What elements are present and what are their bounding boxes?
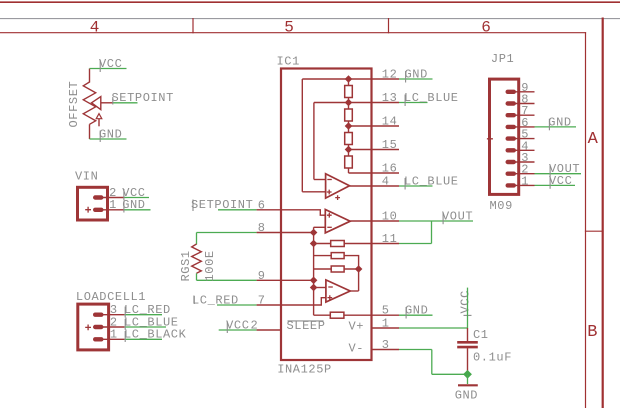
op-amp A plus mark <box>327 190 332 195</box>
svg-text:15: 15 <box>382 138 398 152</box>
VIN pin2 contact <box>93 195 104 199</box>
svg-text:0.1uF: 0.1uF <box>473 350 512 364</box>
capacitor C1 <box>457 328 512 371</box>
internal opampC minus lead <box>314 287 326 289</box>
internal vertical bus <box>313 227 315 315</box>
frame outer right line <box>602 19 604 408</box>
GND stub <box>467 374 469 384</box>
svg-text:14: 14 <box>382 115 398 129</box>
JP1 pin4 contact <box>506 148 517 152</box>
frame top outer line <box>0 1 620 3</box>
potentiometer OFFSET <box>83 69 112 140</box>
label tick VCC (JP1) <box>549 177 551 189</box>
JP1 pin9 contact <box>506 90 517 94</box>
label tick LC_BLUE (pin4) <box>404 178 406 190</box>
net label LC_RED (IC pin7) <box>192 293 257 307</box>
internal pin9 route <box>280 279 314 281</box>
svg-text:7: 7 <box>258 294 266 308</box>
op-amp A outside plus mark <box>335 195 340 200</box>
JP1 box <box>490 79 519 194</box>
svg-text:GND: GND <box>122 198 145 212</box>
wire down to RGS1 top <box>196 233 198 245</box>
frame inner right line <box>585 33 587 408</box>
pin 9 stub <box>257 279 280 281</box>
pin 11 stub <box>373 243 400 245</box>
pin 15 stub <box>373 149 400 151</box>
resistor box feedback B <box>331 253 344 259</box>
GND bar <box>458 384 478 386</box>
wire pin8 horizontal <box>197 232 257 234</box>
svg-text:SETPOINT: SETPOINT <box>112 91 174 105</box>
pin 2 stub <box>257 329 280 331</box>
chain junction pin12 <box>345 75 353 83</box>
frame inner top line <box>0 32 586 34</box>
pin 10 stub <box>373 220 400 222</box>
wire VCC down <box>467 288 469 328</box>
op-amp C plus mark <box>327 295 332 300</box>
pin 7 stub <box>257 304 280 306</box>
op-amp B output line <box>350 220 372 222</box>
pin 12 stub <box>373 78 400 80</box>
label tick VCC <box>226 322 228 334</box>
chain junction pin15 <box>345 146 353 154</box>
net wire VOUT (JP1 pin2) <box>535 173 582 175</box>
net wire LC_BLUE (loadcell) <box>124 326 166 328</box>
LOADCELL1 polarity plus <box>85 325 91 331</box>
chain resistor box 4 <box>345 156 353 168</box>
svg-text:A: A <box>588 130 599 149</box>
internal rectC row <box>314 268 359 270</box>
svg-text:GND: GND <box>455 388 478 402</box>
connector VIN <box>75 170 151 221</box>
JP1 pin7 contact <box>506 113 517 117</box>
op-amp C triangle <box>326 280 350 302</box>
svg-text:16: 16 <box>382 162 398 176</box>
net label VCC (IC pin2) <box>219 318 257 333</box>
net label SETPOINT (IC pin6) <box>191 198 257 212</box>
pin 5 stub <box>373 314 400 316</box>
junction feedback C <box>355 265 363 273</box>
label tick GND (pin5) <box>405 307 407 319</box>
svg-text:M09: M09 <box>490 199 513 213</box>
svg-text:INA125P: INA125P <box>277 362 332 376</box>
svg-text:VIN: VIN <box>75 170 98 184</box>
svg-text:GND: GND <box>405 304 428 318</box>
label tick VCC column <box>464 314 472 316</box>
internal resistor chain vertical <box>348 79 350 173</box>
net wire GND (pin5) <box>399 314 433 316</box>
LOADCELL1 pin3 contact <box>93 313 104 317</box>
svg-text:GND: GND <box>548 115 571 129</box>
internal row pin15 <box>349 149 373 151</box>
internal row pin16 <box>349 172 373 174</box>
SLEEP overline <box>288 320 324 322</box>
net wire SETPOINT (pot) <box>113 102 138 104</box>
JP1 polarity cross <box>487 136 493 142</box>
VIN pin2 stub <box>100 197 124 199</box>
svg-text:VCC: VCC <box>458 290 472 313</box>
label tick SETPOINT <box>192 200 194 212</box>
resistor zigzag OFFSET <box>83 82 95 124</box>
svg-text:B: B <box>587 323 597 342</box>
svg-text:5: 5 <box>284 18 294 36</box>
pot wiper arrow <box>92 97 101 110</box>
VIN pin1 contact <box>93 208 104 212</box>
JP1 pin4 stub <box>512 149 535 151</box>
chain junction pin14 <box>345 122 353 130</box>
junction pin11 bus <box>310 240 318 248</box>
svg-text:V-: V- <box>349 342 365 356</box>
svg-text:GND: GND <box>99 127 122 141</box>
net wire GND (VIN) <box>124 209 150 211</box>
internal opampA plus lead <box>302 191 325 193</box>
net wire pin3 right <box>399 349 432 351</box>
VIN pin1 stub <box>100 209 124 211</box>
svg-text:4: 4 <box>382 175 390 189</box>
VIN box <box>78 187 108 220</box>
op-amp C output line <box>350 290 358 292</box>
wire pin3 to junction <box>432 373 468 375</box>
resistor box pin11 <box>331 241 345 247</box>
wire RGS1 bottom down <box>196 273 198 280</box>
op-amp C minus mark <box>328 286 333 288</box>
pin 4 stub <box>373 185 400 187</box>
svg-text:1: 1 <box>109 198 117 212</box>
label tick LC_BLUE (pin13) <box>404 95 406 107</box>
svg-text:LC_RED: LC_RED <box>192 293 239 307</box>
C1 top plate <box>457 341 478 344</box>
JP1 pin1 stub <box>512 184 535 186</box>
svg-text:LC_BLACK: LC_BLACK <box>124 328 187 342</box>
C1 bottom stub <box>467 348 469 371</box>
chain resistor box 1 <box>345 86 353 98</box>
JP1 pin2 contact <box>506 172 517 176</box>
op-amp A output line <box>350 185 373 187</box>
label tick VOUT (pin10) <box>442 213 444 225</box>
junction node VOUT/C1/GND <box>463 370 472 379</box>
pot adjust arrow head <box>96 114 102 119</box>
chain resistor box 3 <box>345 133 353 145</box>
connector JP1 <box>487 52 519 213</box>
net wire VCC (pot) <box>90 68 127 70</box>
frame column tick 4/5 <box>192 19 194 33</box>
svg-text:JP1: JP1 <box>491 52 514 66</box>
svg-text:GND: GND <box>405 67 428 81</box>
op-amp B triangle <box>325 210 350 233</box>
net wire VOUT (pin10) <box>399 220 473 222</box>
JP1 pin5 stub <box>512 138 535 140</box>
wire pot bottom to GND <box>89 124 91 139</box>
LOADCELL1 box <box>78 304 109 350</box>
svg-text:VCC: VCC <box>226 318 249 332</box>
net wire GND (pot) <box>90 138 127 140</box>
internal pin6 route <box>280 210 325 215</box>
svg-text:VOUT: VOUT <box>442 209 473 223</box>
frame top gray line <box>0 18 620 20</box>
op-amp A minus mark <box>327 179 332 181</box>
JP1 pin2 stub <box>512 173 535 175</box>
VIN polarity plus <box>85 207 91 213</box>
svg-text:V+: V+ <box>349 320 365 334</box>
label tick SETPOINT (pot) <box>112 97 114 105</box>
net wire GND (JP1 pin6) <box>535 126 577 128</box>
JP1 pin6 stub <box>512 126 535 128</box>
svg-text:1: 1 <box>110 328 118 342</box>
net wire VCC <box>219 329 257 331</box>
label tick GND (VIN) <box>123 201 125 212</box>
svg-text:1: 1 <box>382 317 390 331</box>
net wire LC_BLUE (pin4) <box>399 185 433 187</box>
internal drop to opampA minus <box>313 103 315 180</box>
label tick GND (JP1) <box>548 119 550 131</box>
internal pin11 row left <box>314 243 331 245</box>
junction pin8 bus <box>310 229 318 237</box>
svg-text:RGS1: RGS1 <box>179 250 193 281</box>
JP1 pin1 contact <box>506 183 517 187</box>
svg-text:OFFSET: OFFSET <box>67 81 81 128</box>
JP1 pin9 stub <box>512 91 535 93</box>
wire pin10 to pin11 vertical <box>431 221 433 244</box>
IC1 box <box>281 69 372 361</box>
internal opampA minus lead <box>314 179 326 181</box>
wire pin3 down <box>431 350 433 375</box>
internal row pin14 <box>349 125 373 127</box>
svg-text:11: 11 <box>382 232 398 246</box>
svg-text:8: 8 <box>258 221 266 235</box>
internal opampB minus lead <box>314 226 326 228</box>
JP1 pin5 contact <box>506 136 517 140</box>
op-amp B minus mark <box>327 226 332 228</box>
svg-text:VCC: VCC <box>99 57 122 71</box>
chain resistor box 2 <box>345 109 353 121</box>
RGS1 zigzag <box>192 244 202 273</box>
svg-text:9: 9 <box>258 269 266 283</box>
pot wiper line <box>101 102 113 104</box>
svg-text:6: 6 <box>481 18 491 36</box>
internal pin5 row right <box>344 314 373 316</box>
op-amp B plus mark <box>327 213 332 218</box>
op-amp A triangle <box>326 174 350 198</box>
label tick LC_BLACK (loadcell) <box>124 331 126 342</box>
LOADCELL1 pin2 contact <box>93 325 104 329</box>
JP1 pin6 contact <box>506 125 517 129</box>
internal drop to opampA plus <box>301 79 303 192</box>
supply VCC (C1 column) <box>458 288 472 328</box>
internal pin5 row <box>314 314 331 316</box>
JP1 pin7 stub <box>512 114 535 116</box>
label tick VCC (VIN) <box>123 189 125 201</box>
net wire GND (pin12) <box>399 78 433 80</box>
label tick LC_RED <box>193 296 195 304</box>
net wire LC_BLACK (loadcell) <box>124 338 162 340</box>
pin 8 stub <box>257 232 280 234</box>
JP1 pin3 contact <box>506 160 517 164</box>
op-amp IC1 INA125P <box>277 55 372 377</box>
svg-text:LOADCELL1: LOADCELL1 <box>76 290 146 304</box>
JP1 pin8 contact <box>506 101 517 105</box>
frame column tick 5/6 <box>388 19 390 33</box>
net wire LC_RED (loadcell) <box>124 314 162 316</box>
wire pin11 horizontal <box>399 243 432 245</box>
svg-text:1: 1 <box>521 174 529 188</box>
label tick LC_BLUE (loadcell) <box>124 319 126 330</box>
svg-text:IC1: IC1 <box>277 55 300 69</box>
net wire LC_BLUE (pin13) <box>399 102 428 104</box>
net wire VCC (VIN) <box>124 197 149 199</box>
svg-text:4: 4 <box>90 18 100 36</box>
connector LOADCELL1 <box>76 290 187 350</box>
internal pin8 route <box>280 232 314 234</box>
label tick LC_RED (loadcell) <box>124 307 126 318</box>
JP1 pin8 stub <box>512 103 535 105</box>
internal pin11 row right <box>344 243 372 245</box>
pin 1 stub <box>373 327 400 329</box>
label tick VOUT (JP1) <box>549 166 551 178</box>
net wire SETPOINT <box>218 209 257 211</box>
label tick GND (pot) <box>99 131 101 143</box>
pin 16 stub <box>373 172 400 174</box>
LOADCELL1 pin1 contact <box>93 337 104 341</box>
wire pin9 horizontal <box>197 279 257 281</box>
LOADCELL1 pin3 stub <box>100 314 124 316</box>
pin 6 stub <box>257 209 280 211</box>
resistor RGS1 <box>179 233 257 282</box>
svg-text:VCC: VCC <box>549 174 572 188</box>
LOADCELL1 pin1 stub <box>100 338 124 340</box>
svg-text:10: 10 <box>382 209 398 223</box>
internal rectB row <box>314 256 359 291</box>
ground symbol GND (bottom) <box>455 374 478 402</box>
pin 14 stub <box>373 125 400 127</box>
internal row pin12 <box>302 78 372 80</box>
svg-text:3: 3 <box>382 338 390 352</box>
label tick GND (pin12) <box>405 71 407 83</box>
frame row divider A/B <box>586 230 603 232</box>
resistor box feedback C <box>331 266 344 272</box>
svg-text:LC_BLUE: LC_BLUE <box>404 174 459 188</box>
label tick VCC (pot) <box>99 60 101 72</box>
net wire pin1 to VCC column <box>399 327 468 329</box>
svg-text:2: 2 <box>251 319 259 333</box>
svg-text:100E: 100E <box>203 250 217 281</box>
net wire VCC (JP1 pin1) <box>535 184 576 186</box>
svg-text:13: 13 <box>382 91 398 105</box>
pin 3 stub <box>373 349 400 351</box>
C1 top stub <box>467 328 469 341</box>
JP1 pin3 stub <box>512 161 535 163</box>
wire VCC to pot top <box>89 69 91 83</box>
C1 bottom plate <box>457 346 478 349</box>
net wire LC_RED <box>217 304 257 306</box>
pot adjust arrow shaft <box>98 119 100 127</box>
svg-text:6: 6 <box>258 198 266 212</box>
internal row pin13 <box>314 102 373 104</box>
chain junction pin13 <box>345 99 353 107</box>
svg-text:C1: C1 <box>473 328 489 342</box>
svg-text:SETPOINT: SETPOINT <box>191 198 253 212</box>
junction opampC minus bus <box>310 284 318 292</box>
svg-text:LC_BLUE: LC_BLUE <box>404 91 459 105</box>
LOADCELL1 pin2 stub <box>100 326 124 328</box>
junction pin9 bus <box>310 277 318 285</box>
resistor box pin5 <box>330 312 344 318</box>
svg-text:12: 12 <box>382 68 398 82</box>
internal pin7 route <box>280 298 326 305</box>
pin 13 stub <box>373 102 400 104</box>
